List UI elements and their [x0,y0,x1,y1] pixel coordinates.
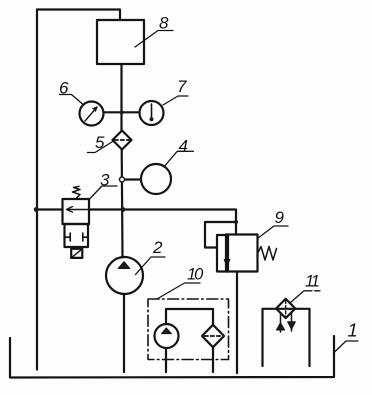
leader for label 9 [258,226,289,239]
node: junction dot left line [34,207,39,212]
leader for label 8 [135,31,173,48]
breather 11 (diamond) [276,299,295,318]
valve 3 flow arrow [67,209,89,211]
valve 3 actuator box [71,249,82,258]
svg-text:2: 2 [152,238,163,257]
leader for label 6 [60,95,84,105]
valve 3 spring [73,186,81,199]
leader for label 7 [163,96,188,105]
svg-text:7: 7 [177,77,187,96]
label 3 [100,171,110,190]
svg-text:11: 11 [305,273,319,291]
valve 3 blocked port marks [65,233,71,241]
wire: gauge 6 connector [104,111,122,113]
pump 2 [106,257,143,294]
label 10 [187,265,204,283]
gauge 6 (pressure gauge) [80,102,104,126]
wire: flow line valve3 to relief valve 9 [89,210,236,235]
gauge 7 (thermometer) [140,101,164,125]
svg-text:8: 8 [159,14,169,33]
label 11 [305,273,319,291]
valve 3 body bottom square [65,224,89,247]
filter 10b (diamond) [202,325,224,347]
wire: aux pump suction to tank [165,348,167,372]
node: junction dot pilot [234,220,238,224]
svg-text:1: 1 [348,320,358,341]
pump 10a (aux pump) [155,324,179,348]
label 6 [59,79,69,98]
node: junction dot on main line [121,207,126,212]
wire: accumulator connector [125,178,142,180]
wire: filter 10b line to tank [212,347,214,372]
valve 3 body top square [63,199,90,224]
label 4 [179,137,188,156]
breather sub-tank box [263,309,310,366]
label 5 [95,133,105,152]
wire: top supply line [37,10,120,21]
box 8 (heat exchanger) [97,20,144,64]
label 2 [152,238,163,257]
relief valve 9 spring [258,247,277,261]
wire: main vertical line box8 to diamond5 [120,64,122,131]
leader for label 2 [136,257,166,275]
breather 11 internal dashed element [285,301,287,317]
box 10 (dash-dot enclosure) [148,299,229,360]
node: junction dot at gauges [120,110,124,114]
label 9 [275,208,285,227]
svg-text:9: 9 [275,208,285,227]
relief valve 9 body [226,235,258,272]
wire: main vertical line diamond5 to pump2 [121,150,124,258]
leader for label 1 [335,341,359,352]
label 7 [177,77,187,96]
leader for label 5 [88,141,114,153]
relief valve 9 pilot band [217,235,228,272]
wire: box10 top connector [166,309,213,325]
label 8 [159,14,169,33]
wire: gauge 7 connector [122,111,140,113]
node: ring junction on main line [120,177,125,182]
leader for label 11 [291,291,320,302]
wire: relief valve 9 outlet to tank [236,272,238,374]
leader for label 4 [164,151,194,167]
relief valve 9 pilot loop [205,222,236,248]
tank 1 (reservoir outline) [10,336,334,378]
leader for label 10 [157,283,200,299]
wire: left return line [36,10,38,370]
filter 5 (diamond) [113,131,132,150]
wire: flow line y=209.5 left of valve 3 [37,208,63,210]
wire: main vertical line pump2 to tank [123,294,125,372]
wire: aux pump riser [165,309,167,324]
svg-text:4: 4 [179,137,188,156]
label 1 [348,320,358,341]
breather 11 check arrows [280,314,282,332]
accumulator 4 (circle) [141,164,171,194]
svg-text:10: 10 [187,265,204,283]
relief valve 9 internal arrow [226,239,228,266]
leader for label 3 [90,186,118,199]
